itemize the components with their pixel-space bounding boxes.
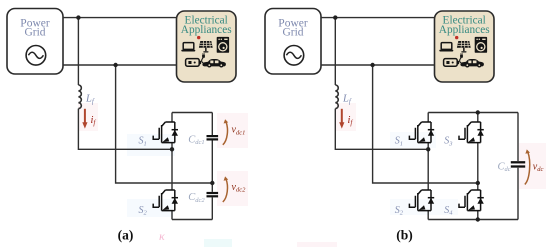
wire: neutral drop to capacitor midpoint (a) — [116, 65, 213, 183]
wire: S2 emitter to bottom rail (b) — [427, 211, 429, 220]
node: neutral junction on bottom wire (b) — [370, 63, 374, 67]
voltage arrow vdc2 (a) — [223, 176, 228, 202]
wire: S2 emitter to bottom rail (a) — [171, 211, 173, 220]
voltage arrow vdc1 (a) — [223, 119, 228, 145]
wire: right leg S3-S4 (b) — [477, 143, 479, 190]
transistor S4 IGBT (b) — [459, 190, 484, 211]
capacitor Cdc plates (b) — [511, 162, 525, 166]
electrical appliances box (a) — [177, 11, 237, 82]
power grid box (b) — [265, 9, 321, 75]
node: phase junction on top wire (a) — [76, 15, 80, 19]
svg-text:Cdc1: Cdc1 — [188, 134, 204, 146]
wire: S1 emitter to S2 collector (a) — [171, 143, 173, 190]
node: phase junction on top wire (b) — [333, 15, 337, 19]
wire: top rail (b) — [428, 112, 518, 114]
node: capacitor midpoint (a) — [210, 181, 214, 185]
transistor S2 IGBT (a) — [153, 190, 178, 211]
transistor S2 IGBT (b) — [409, 190, 434, 211]
transistor S3 IGBT (b) — [459, 122, 484, 143]
svg-text:(a): (a) — [118, 228, 134, 243]
electrical appliances box (b) — [435, 11, 495, 82]
wire: grid bottom terminal to appliances (a) — [63, 64, 177, 66]
wire: capacitor rail (b) — [517, 113, 519, 220]
wire: right capacitor rail (a) — [211, 113, 213, 220]
wire: bridge leg S1 collector lead (a) — [171, 113, 173, 123]
node: top rail junction (b) — [476, 110, 480, 114]
node: neutral junction on bottom wire (a) — [113, 63, 117, 67]
svg-text:Lf: Lf — [85, 94, 95, 106]
svg-text:(b): (b) — [396, 228, 413, 243]
node: right leg midpoint (b) — [476, 181, 480, 185]
capacitor Cdc2 plates (a) — [207, 193, 219, 196]
transistor S1 IGBT (a) — [153, 122, 178, 143]
inductor Lf (b) — [335, 85, 338, 109]
wire: S1 collector lead (b) — [427, 113, 429, 123]
wire: bottom rail (a) — [172, 219, 212, 221]
background artifacts tints — [78, 103, 546, 247]
wire: S3 collector lead (b) — [477, 113, 479, 123]
svg-text:Cdc: Cdc — [498, 161, 511, 173]
svg-text:S3: S3 — [444, 136, 453, 148]
capacitor Cdc1 plates (a) — [207, 136, 219, 139]
node: left leg midpoint (b) — [426, 147, 430, 151]
wire: top rail (a) — [172, 112, 212, 114]
svg-text:Lf: Lf — [342, 94, 352, 106]
current arrow if (a) — [82, 109, 87, 129]
wire: grid top terminal to appliances (a) — [63, 17, 177, 19]
transistor S1 IGBT (b) — [409, 122, 434, 143]
wire: neutral drop to right leg midpoint (b) — [373, 65, 478, 183]
voltage arrow vdc (b) — [525, 149, 530, 184]
power grid box (a) — [7, 9, 63, 75]
svg-text:κ: κ — [159, 229, 165, 243]
wire: grid bottom terminal to appliances (b) — [321, 64, 435, 66]
wire: left leg S1-S2 (b) — [427, 143, 429, 190]
wire: S4 emitter to bottom rail (b) — [477, 211, 479, 220]
wire: phase drop to inductor (a) — [77, 18, 79, 85]
wire: inductor to left leg midpoint (b) — [335, 109, 428, 150]
wire: grid top terminal to appliances (b) — [321, 17, 435, 19]
svg-text:Cdc2: Cdc2 — [188, 192, 205, 204]
wire: phase drop to inductor (b) — [334, 18, 336, 85]
wire: bottom rail (b) — [428, 219, 518, 221]
node: bottom rail junction (b) — [476, 217, 480, 221]
node: bridge midpoint (a) — [170, 147, 174, 151]
inductor Lf (a) — [78, 85, 81, 109]
current arrow if (b) — [339, 109, 344, 129]
wire: inductor to bridge midpoint (a) — [78, 109, 172, 150]
